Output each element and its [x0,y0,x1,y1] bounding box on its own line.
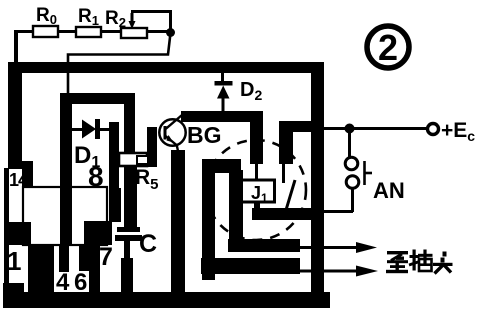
wire top-left horizontal (resistor chain) [14,30,172,33]
char 至 [387,251,408,254]
outer box left edge (thick upper) [8,62,22,169]
bar to upper arrow [228,239,300,252]
right contact lower line [282,164,285,183]
pin 1 tab [8,222,31,245]
BG emitter bar to bottom [171,150,185,292]
wide ground bar below IC [28,245,54,300]
outer box left thin line [4,168,9,292]
pin 7 elbow tab [84,221,112,245]
svg-text:14: 14 [9,170,28,190]
svg-text:2: 2 [378,27,398,68]
resistor R5 [119,153,147,166]
capacitor C [117,227,140,232]
svg-text:6: 6 [74,269,87,296]
node junction R2 right [166,28,175,37]
outer box top edge [8,62,324,73]
arrow to plug lower [300,270,358,273]
wire junction down-left into box [68,33,171,95]
resistor R1 [76,27,101,37]
pin 14 connector bar [22,161,33,189]
svg-text:7: 7 [99,243,113,271]
wire J1 bottom [254,202,260,210]
svg-text:8: 8 [88,161,104,192]
svg-text:C: C [139,230,157,258]
collector plate bar [181,111,263,122]
pin 7 bar [89,245,100,300]
stub right contact to edge [279,121,313,132]
IC U1 body [23,187,107,245]
diode D1 [71,128,82,131]
figure number circled 2 [367,26,409,68]
svg-text:1: 1 [7,246,21,276]
wire R5 down to C [124,166,137,227]
label 至插头 (drawn strokes) [386,250,453,274]
moving contact arm [286,180,295,210]
node junction AN top [345,124,355,134]
arrow to plug upper [300,246,358,249]
svg-text:AN: AN [373,178,405,203]
wire contact bar to J1 coil [255,163,258,181]
resistor R0 [33,26,58,37]
resistor R2 (adjustable) [121,28,147,38]
wire D1 cathode to IC pin 8 [109,122,119,189]
outer box right edge [311,62,324,303]
pushbutton AN [348,128,351,157]
pin 6 bar [79,245,90,271]
U-bar top [202,159,241,173]
D1 sub-box top bar [60,93,135,104]
outer box bottom-left corner [3,283,24,306]
BG base bar [147,127,157,167]
relay right contact bar [279,121,293,164]
relay dashed circle [206,140,306,240]
svg-text:4: 4 [56,269,70,296]
transistor BG Q1 [159,119,185,145]
R2 wiper arrow [131,13,134,23]
wire wiper loop top [131,10,172,13]
bar below J1 to edge [252,208,316,220]
relay left contact bar [250,121,263,164]
char 头 [443,252,447,257]
U-bar left vertical [202,159,215,280]
wire left drop to box [14,30,18,64]
D1 sub-box left bar (through IC, pin 4 drop) [60,95,72,245]
terminal +Ec ring [428,124,439,135]
outer box bottom edge [3,292,330,308]
inner vertical bar [229,170,243,246]
diode D2 [221,71,224,83]
svg-text:BG: BG [187,122,222,148]
U-bar bottom (to lower arrow) [201,258,300,274]
char 插 [410,255,420,258]
D1 sub-box right bar [124,100,135,155]
wire R5 to base bar [137,156,149,164]
relay coil J1 [242,180,275,202]
wire +Ec [324,127,427,130]
